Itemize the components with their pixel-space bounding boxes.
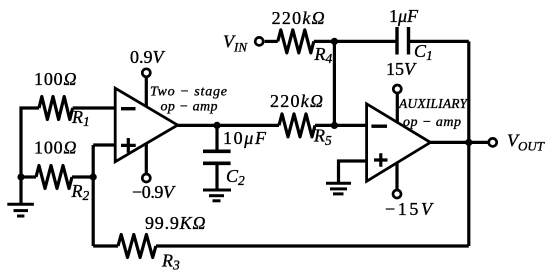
svg-text:C2: C2 xyxy=(226,166,245,188)
svg-text:C1: C1 xyxy=(414,41,433,63)
svg-text:99.9KΩ: 99.9KΩ xyxy=(145,213,206,233)
wire bottom feedback run xyxy=(93,244,469,247)
resistor R3 xyxy=(118,235,156,258)
wire U2 output to VOUT xyxy=(430,141,492,144)
wire VIN to R4 xyxy=(265,40,278,43)
wire R4 to C1 left plate xyxy=(314,40,397,43)
node junction R5 / U2 input xyxy=(331,122,338,129)
svg-text:R1: R1 xyxy=(71,107,90,129)
svg-text:AUXILIARY: AUXILIARY xyxy=(398,96,468,111)
svg-text:R3: R3 xyxy=(161,251,180,273)
capacitor C1 xyxy=(397,27,409,55)
op-amp U2 auxiliary xyxy=(367,104,431,182)
op-amp U2 minus sign xyxy=(371,124,387,127)
wire node column x=334.4 linking R4 node to R5 node xyxy=(333,41,336,125)
node junction R2 right xyxy=(90,173,97,180)
svg-text:0.9V: 0.9V xyxy=(130,47,166,67)
wire U1 negative supply stub xyxy=(145,143,148,178)
wire R1 right to U1 inverting input xyxy=(73,106,116,109)
wire U2 positive supply stub xyxy=(396,89,399,123)
svg-text:10μF: 10μF xyxy=(223,128,267,148)
wire U1 positive supply stub xyxy=(145,73,148,108)
svg-text:−0.9V: −0.9V xyxy=(132,182,176,202)
wire vertical junction column x=93.5 xyxy=(92,145,95,246)
terminal -0.9V xyxy=(142,174,150,182)
resistor R1 xyxy=(39,97,73,120)
terminal VOUT xyxy=(489,138,497,146)
node junction R4 / C1 xyxy=(331,38,338,45)
node junction VOUT / feedback xyxy=(465,139,472,146)
svg-text:220kΩ: 220kΩ xyxy=(272,8,325,28)
svg-text:R2: R2 xyxy=(71,181,90,203)
wire U2 non-inverting input to ground xyxy=(339,161,367,182)
wire R2 right to junction xyxy=(72,175,93,178)
svg-text:R5: R5 xyxy=(313,126,332,148)
svg-text:−15V: −15V xyxy=(385,199,434,219)
wire U1 non-inverting input xyxy=(93,143,115,146)
resistor R5 xyxy=(279,114,315,137)
wire R2 left stub xyxy=(21,175,36,178)
svg-text:op − amp: op − amp xyxy=(161,99,218,114)
wire R5 to U2 inverting input xyxy=(315,124,367,127)
wire U2 negative supply stub xyxy=(395,164,398,195)
svg-text:15V: 15V xyxy=(386,59,417,79)
svg-text:Two − stage: Two − stage xyxy=(150,85,227,100)
wire U1 output to R5 xyxy=(178,124,279,127)
wire right rail x=468 xyxy=(467,41,470,246)
terminal VIN xyxy=(255,37,263,45)
node junction R2 left xyxy=(17,173,24,180)
wire left rail from R1 row down to ground xyxy=(21,108,39,204)
node junction U1 output / C2 xyxy=(213,122,220,129)
svg-text:VOUT: VOUT xyxy=(507,131,545,154)
svg-text:100Ω: 100Ω xyxy=(34,138,77,158)
wire C1 right plate to right rail xyxy=(409,40,469,43)
resistor R2 xyxy=(36,166,72,189)
capacitor C2 xyxy=(203,151,231,163)
op-amp U1 minus sign xyxy=(121,107,136,110)
terminal -15V xyxy=(393,190,401,198)
svg-text:VIN: VIN xyxy=(223,32,248,55)
resistor R4 xyxy=(278,30,314,53)
terminal 15V xyxy=(393,85,401,93)
ground under C2 xyxy=(203,190,231,201)
terminal 0.9V xyxy=(142,69,150,77)
wire C2 top stem xyxy=(215,125,218,150)
svg-text:op − amp: op − amp xyxy=(403,115,461,130)
ground left xyxy=(7,204,34,216)
op-amp U2 plus sign xyxy=(374,153,388,166)
op-amp U1 two-stage xyxy=(115,88,177,162)
wire C2 bottom stem xyxy=(215,165,218,190)
svg-text:100Ω: 100Ω xyxy=(34,69,77,89)
ground at U2 non-inverting input xyxy=(326,183,351,194)
svg-text:R4: R4 xyxy=(314,44,333,66)
op-amp U1 plus sign xyxy=(121,138,136,153)
svg-text:220kΩ: 220kΩ xyxy=(270,91,323,111)
svg-text:1μF: 1μF xyxy=(389,6,419,26)
